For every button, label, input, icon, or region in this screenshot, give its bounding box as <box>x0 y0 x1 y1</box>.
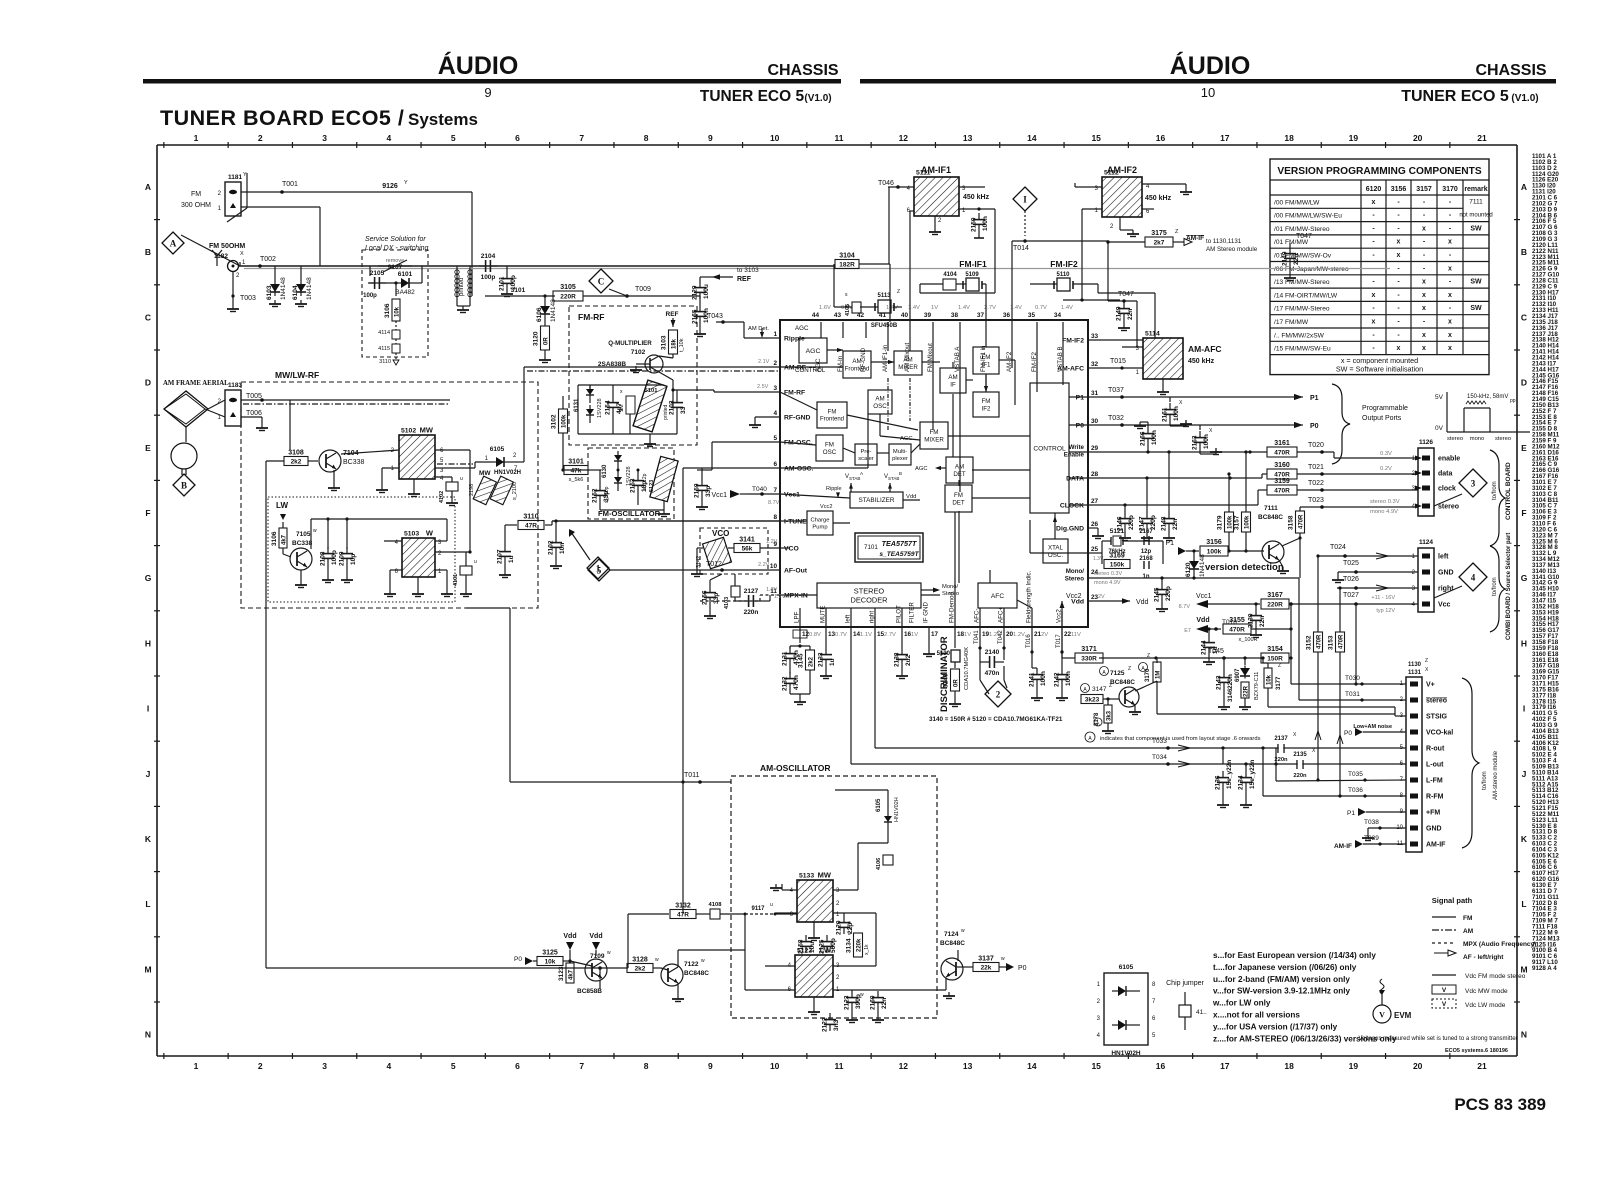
svg-text:v...for SW-version 3.9-12.1MHz: v...for SW-version 3.9-12.1MHz only <box>1213 987 1351 996</box>
IC internal block Pre-scaler <box>855 444 877 465</box>
svg-text:Dig.GND: Dig.GND <box>1056 526 1084 533</box>
capacitor 2130 <box>1248 609 1267 628</box>
svg-text:2131: 2131 <box>782 651 789 666</box>
svg-text:4: 4 <box>1471 573 1476 583</box>
svg-text:Z: Z <box>897 289 900 295</box>
svg-text:W: W <box>426 529 434 538</box>
svg-text:3157: 3157 <box>1234 515 1241 530</box>
diode 6103 <box>274 266 276 280</box>
header rule right <box>860 79 1556 84</box>
transformer 5111 <box>914 170 959 217</box>
wire T023 stereo to connector <box>1300 497 1418 515</box>
svg-text:15: 15 <box>1091 1061 1101 1071</box>
ground <box>341 576 353 583</box>
svg-text:470n: 470n <box>985 670 1000 677</box>
svg-text:30: 30 <box>1091 418 1099 425</box>
svg-text:Vdd: Vdd <box>589 933 602 940</box>
svg-text:C: C <box>1521 312 1527 322</box>
svg-text:Vcc: Vcc <box>1438 602 1451 609</box>
diode 6106 1N4148 <box>544 296 546 302</box>
svg-text:7: 7 <box>579 1061 584 1071</box>
ground <box>846 1016 858 1023</box>
wire T006 gnd <box>241 417 268 431</box>
diode 6104 <box>292 277 313 300</box>
svg-text:FM-In: FM-In <box>837 355 844 372</box>
ground <box>1102 727 1114 734</box>
svg-text:HN1V02H: HN1V02H <box>1111 1050 1141 1057</box>
svg-text:3: 3 <box>1471 479 1476 489</box>
svg-text:17: 17 <box>931 631 939 638</box>
svg-text:1: 1 <box>194 1061 199 1071</box>
REF arrow FM-RF <box>666 311 679 327</box>
ground <box>295 300 307 307</box>
svg-text:3140: 3140 <box>943 673 950 688</box>
svg-text:w: w <box>860 992 864 998</box>
svg-text:MW: MW <box>479 470 491 477</box>
svg-text:1: 1 <box>596 564 601 574</box>
wire Vcc1 to V+ vertical <box>1290 604 1292 684</box>
svg-text:100k: 100k <box>1207 549 1222 556</box>
svg-text:3120: 3120 <box>533 331 540 346</box>
transistor 7125 group <box>1100 666 1136 686</box>
wire RF-GND pin4 <box>749 417 780 428</box>
svg-text:IF: IF <box>950 381 956 388</box>
svg-text:16: 16 <box>1156 133 1166 143</box>
svg-text:AFC: AFC <box>991 593 1004 600</box>
svg-text:BZX79-C11: BZX79-C11 <box>1254 672 1260 700</box>
svg-text:/00 FM/MW/LW: /00 FM/MW/LW <box>1274 199 1320 206</box>
svg-text:3169: 3169 <box>1109 553 1125 560</box>
resistor 3167 <box>1261 592 1289 609</box>
svg-text:Vcc1: Vcc1 <box>1196 593 1212 600</box>
svg-text:2104: 2104 <box>481 253 496 260</box>
svg-text:y....for USA version (/17/37): y....for USA version (/17/37) only <box>1213 1022 1338 1031</box>
capacitors 2146 2147 2148 <box>1125 452 1169 512</box>
svg-text:4104: 4104 <box>943 272 957 278</box>
svg-text:2132: 2132 <box>782 676 789 691</box>
svg-text:3110: 3110 <box>379 359 391 365</box>
resistor 3154 <box>1261 646 1289 663</box>
svg-text:15e_y22n: 15e_y22n <box>1249 760 1256 789</box>
ground <box>1277 567 1289 574</box>
IC right pin labels <box>1056 333 1099 606</box>
svg-text:2168: 2168 <box>1139 556 1153 562</box>
svg-text:BC848C: BC848C <box>684 970 709 977</box>
capacitor 2105 100p <box>363 266 386 299</box>
svg-text:data: data <box>1438 471 1453 478</box>
svg-text:47R: 47R <box>525 523 537 530</box>
dashed box AM-OSCILLATOR <box>731 763 937 1018</box>
svg-text:7125: 7125 <box>1110 670 1125 677</box>
svg-text:mono 4.9V: mono 4.9V <box>1370 509 1398 515</box>
svg-text:2: 2 <box>258 1061 263 1071</box>
svg-text:220n: 220n <box>1227 674 1234 689</box>
capacitor 2134 <box>1238 760 1257 790</box>
svg-text:w...for LW only: w...for LW only <box>1212 999 1271 1008</box>
svg-text:1.2V: 1.2V <box>774 594 786 600</box>
svg-text:5121: 5121 <box>1110 528 1125 535</box>
svg-text:x: x <box>1448 345 1452 352</box>
wire vertical 470 <box>469 450 471 552</box>
svg-text:2101: 2101 <box>499 276 506 291</box>
ground <box>770 884 782 891</box>
svg-text:10: 10 <box>1201 85 1215 100</box>
svg-text:EVM: EVM <box>1394 1011 1412 1020</box>
ground <box>896 672 908 679</box>
svg-text:7124: 7124 <box>944 931 959 938</box>
capacitor 2146 <box>1117 512 1136 531</box>
svg-text:5112: 5112 <box>1104 170 1119 177</box>
svg-text:100n: 100n <box>1151 430 1158 445</box>
capacitor 2108 <box>320 547 339 566</box>
ground <box>1210 448 1222 455</box>
svg-text:BC338: BC338 <box>292 540 313 547</box>
svg-text:4114: 4114 <box>378 330 390 336</box>
IC internal block FM MIXER <box>920 422 948 449</box>
svg-text:MIXER: MIXER <box>924 436 944 443</box>
svg-text:2107: 2107 <box>497 549 504 564</box>
svg-text:1V: 1V <box>931 305 938 311</box>
filter 5120 CDA10.7MG40K <box>937 627 970 690</box>
svg-text:w: w <box>607 950 611 956</box>
svg-text:Programmable: Programmable <box>1362 405 1408 412</box>
svg-text:3: 3 <box>322 1061 327 1071</box>
svg-text:Vcc1: Vcc1 <box>711 492 727 499</box>
ground <box>694 330 706 337</box>
svg-text:Write: Write <box>1069 444 1085 451</box>
svg-text:450 kHz: 450 kHz <box>1188 358 1215 365</box>
resistor 3125 10k <box>514 956 537 965</box>
ground <box>929 228 941 235</box>
capacitor 2125 <box>819 935 838 954</box>
node 5 <box>588 559 610 581</box>
svg-text:6120: 6120 <box>1185 562 1192 577</box>
svg-text:FM: FM <box>982 398 991 405</box>
wire VCO-kal P0 <box>1344 724 1406 737</box>
capacitor 2154 <box>605 396 624 415</box>
svg-text:2137: 2137 <box>1274 736 1288 742</box>
svg-text:Z: Z <box>1109 683 1112 689</box>
svg-text:typ 12V: typ 12V <box>1376 608 1395 614</box>
resistor 3125 <box>537 950 563 966</box>
svg-text:Chip jumper: Chip jumper <box>1166 980 1204 987</box>
wire ripple pin1 <box>744 322 780 338</box>
svg-text:3132: 3132 <box>675 903 691 910</box>
capacitor 2104 <box>479 253 497 281</box>
node A <box>162 232 184 254</box>
svg-text:22n: 22n <box>1172 519 1179 530</box>
svg-text:J: J <box>146 769 151 779</box>
capacitor 2135 220n series <box>1293 748 1316 779</box>
svg-text:13: 13 <box>963 133 973 143</box>
svg-text:printed: printed <box>459 278 465 296</box>
node 4 <box>1459 563 1487 591</box>
svg-text:P1: P1 <box>1076 395 1085 402</box>
svg-text:left: left <box>1438 554 1449 561</box>
svg-text:2159: 2159 <box>694 483 701 498</box>
component 6105 HN1V02H block <box>1097 964 1156 1057</box>
wire DigGND pin26 <box>1088 528 1104 539</box>
svg-text:AGC: AGC <box>900 436 913 442</box>
svg-text:T034: T034 <box>1152 754 1167 761</box>
svg-text:220p: 220p <box>1150 515 1157 530</box>
resistor <box>1081 695 1103 704</box>
ground <box>295 581 307 588</box>
svg-text:T035: T035 <box>1348 771 1363 778</box>
svg-text:OSC: OSC <box>823 449 837 456</box>
svg-text:HN1V02H: HN1V02H <box>894 797 900 822</box>
IC internal block AM MIXER <box>894 351 922 375</box>
resistor 4101 <box>453 552 477 597</box>
svg-text:FM-IF1 in: FM-IF1 in <box>980 345 987 372</box>
wire T005 bus <box>241 398 450 402</box>
svg-text:Z: Z <box>1278 663 1281 669</box>
resistor 3101 <box>564 459 588 475</box>
ground <box>446 499 458 506</box>
capacitor 2131 470n <box>790 627 810 650</box>
svg-text:100n: 100n <box>982 216 989 231</box>
svg-text:I: I <box>1023 195 1027 205</box>
svg-text:470n: 470n <box>793 675 800 690</box>
svg-text:REF: REF <box>737 276 752 283</box>
svg-text:MW: MW <box>818 871 832 880</box>
svg-text:470R: 470R <box>1299 514 1305 529</box>
diode 6120 1N4148 <box>1192 549 1195 557</box>
svg-text:SW = Software initialisation: SW = Software initialisation <box>1336 365 1423 374</box>
FM signal bus horizontal <box>238 256 1390 269</box>
svg-text:stereo 0.3V: stereo 0.3V <box>1370 499 1400 505</box>
ground <box>328 484 340 491</box>
svg-text:T022: T022 <box>1308 480 1324 487</box>
svg-text:22k: 22k <box>981 965 992 972</box>
svg-text:L: L <box>145 899 150 909</box>
resistor 3179 <box>1217 512 1234 532</box>
capacitor 2122 <box>822 1013 841 1032</box>
ground <box>704 612 716 619</box>
capacitor 2101 <box>499 272 518 291</box>
ground <box>1362 834 1374 841</box>
ground <box>412 590 424 597</box>
resistor 3103 <box>661 330 678 354</box>
svg-text:2160: 2160 <box>870 995 877 1010</box>
resistor 3134 <box>846 933 863 957</box>
svg-text:2154: 2154 <box>605 400 612 415</box>
svg-text:36: 36 <box>1003 312 1011 319</box>
svg-text:5101: 5101 <box>645 388 659 394</box>
svg-text:Local DX - switching: Local DX - switching <box>365 245 429 252</box>
svg-text:220k: 220k <box>857 938 863 952</box>
node 3 <box>1459 469 1487 497</box>
svg-text:VCO: VCO <box>784 546 799 553</box>
svg-text:x: x <box>1372 292 1376 299</box>
capacitor 2161 <box>1162 403 1181 422</box>
svg-text:/00 FM/MW/LW/SW-Eu: /00 FM/MW/LW/SW-Eu <box>1274 213 1342 220</box>
svg-text:X: X <box>240 251 244 257</box>
resistor 4106 <box>876 855 893 870</box>
resistor 4102 <box>439 476 463 506</box>
filter FM-IF1 5109 <box>920 259 987 291</box>
wire T014 horizontal <box>1012 241 1137 347</box>
svg-text:450 kHz: 450 kHz <box>963 194 990 201</box>
svg-text:37: 37 <box>977 312 985 319</box>
wire Vdd pin23 <box>1088 594 1149 606</box>
svg-text:2144: 2144 <box>1201 640 1208 655</box>
capacitor 2156 <box>702 586 721 605</box>
svg-text:GND: GND <box>1426 826 1442 833</box>
capacitor 2144 1u <box>1207 627 1210 636</box>
svg-text:11: 11 <box>835 133 844 143</box>
svg-text:2108: 2108 <box>320 551 327 566</box>
wire T001 bus <box>241 180 472 296</box>
ground <box>499 571 511 578</box>
svg-text:7122: 7122 <box>684 961 699 968</box>
svg-text:27: 27 <box>1091 498 1099 505</box>
svg-text:2123: 2123 <box>844 995 851 1010</box>
svg-text:right: right <box>1438 586 1454 593</box>
svg-text:3170: 3170 <box>1442 186 1458 193</box>
ground <box>658 510 670 517</box>
svg-text:2127: 2127 <box>744 588 759 595</box>
svg-text:RF-GND: RF-GND <box>860 347 867 372</box>
svg-text:1.6V: 1.6V <box>819 305 831 311</box>
svg-text:7102: 7102 <box>631 349 646 356</box>
capacitor 2136 <box>0 0 1 1</box>
svg-text:Ripple: Ripple <box>826 486 842 492</box>
capacitor 2120 <box>836 916 855 935</box>
programmable output ports brace <box>1332 384 1408 464</box>
svg-text:0.3V: 0.3V <box>1380 451 1392 457</box>
svg-text:38: 38 <box>951 312 959 319</box>
waveform inset stereo mono <box>1435 392 1530 442</box>
svg-text:CONTROL: CONTROL <box>795 367 826 374</box>
dashed box Service Solution for Local DX switching <box>362 236 429 357</box>
svg-text:35: 35 <box>1028 312 1036 319</box>
svg-text:2167: 2167 <box>1139 529 1153 535</box>
svg-text:IF2: IF2 <box>982 405 991 412</box>
ground <box>550 562 562 569</box>
svg-text:T012: T012 <box>706 561 722 568</box>
svg-text:5102: 5102 <box>401 428 416 435</box>
node C <box>589 269 613 293</box>
wire FM-RF pin3 <box>697 384 780 392</box>
svg-text:0V: 0V <box>1435 425 1444 432</box>
svg-text:B: B <box>899 471 902 476</box>
svg-text:2163: 2163 <box>1192 435 1199 450</box>
svg-text:to/from: to/from <box>1482 771 1488 790</box>
grid row letters <box>144 182 1527 1040</box>
svg-text:AGC: AGC <box>915 466 928 472</box>
capacitor 2138 2u2 <box>901 627 903 648</box>
svg-text:T006: T006 <box>246 410 262 417</box>
svg-text:/01 FM/MW: /01 FM/MW <box>1274 239 1309 246</box>
capacitor 2103 <box>669 396 688 415</box>
svg-text:2.5V: 2.5V <box>757 384 769 390</box>
resistor 3108 <box>284 450 308 466</box>
svg-text:CDA10.7MG40K: CDA10.7MG40K <box>964 647 970 690</box>
svg-text:Mono/: Mono/ <box>942 584 959 590</box>
svg-text:1.2V: 1.2V <box>1013 632 1025 638</box>
ground <box>872 1016 884 1023</box>
svg-text:100n: 100n <box>1065 671 1072 686</box>
filter 5113 SFU450B <box>834 264 902 329</box>
svg-text:2.1V: 2.1V <box>758 359 770 365</box>
svg-text:I: I <box>147 704 149 714</box>
svg-text:STAB: STAB <box>849 476 860 481</box>
capacitor 2153 <box>630 474 649 493</box>
capacitor 2127 <box>742 588 760 616</box>
svg-text:4: 4 <box>387 1061 392 1071</box>
svg-text:6105: 6105 <box>490 446 505 453</box>
svg-text:x: x <box>1372 319 1376 326</box>
svg-text:Vdc MW mode: Vdc MW mode <box>1465 988 1508 995</box>
note indicates component <box>1085 732 1261 742</box>
wire clock 3159 row <box>1088 490 1267 507</box>
resistor 4108 <box>696 902 800 990</box>
svg-text:T021: T021 <box>1308 464 1324 471</box>
capacitor 2168 1n <box>1139 556 1153 580</box>
resistor 4103 <box>724 574 740 609</box>
svg-text:5109: 5109 <box>965 272 979 278</box>
svg-text:470R: 470R <box>1317 634 1323 649</box>
capacitor 2145 220p <box>1161 578 1163 583</box>
capacitor 2160 <box>870 991 889 1010</box>
svg-text:version detection: version detection <box>1205 562 1284 573</box>
printed coils <box>455 266 472 313</box>
transformer AM-IF2 5112 <box>1107 165 1137 175</box>
svg-text:150k: 150k <box>1110 562 1125 569</box>
svg-text:1u: 1u <box>508 555 515 563</box>
svg-text:Vcc2: Vcc2 <box>1066 593 1082 600</box>
svg-text:2105: 2105 <box>370 270 385 277</box>
svg-text:x: x <box>1372 199 1376 206</box>
svg-text:Output Ports: Output Ports <box>1362 415 1402 422</box>
svg-text:T043: T043 <box>707 313 723 320</box>
svg-text:2: 2 <box>773 360 777 367</box>
svg-text:P1: P1 <box>1347 810 1355 817</box>
svg-text:12: 12 <box>899 1061 909 1071</box>
svg-text:3171: 3171 <box>1081 646 1097 653</box>
svg-text:FM: FM <box>828 410 837 416</box>
capacitor 2152 <box>592 484 611 503</box>
svg-text:TUNER ECO 5: TUNER ECO 5 <box>1401 88 1509 105</box>
wire IF GND pin17 <box>923 627 935 657</box>
svg-text:J: J <box>1522 769 1527 779</box>
wire P1 version detect <box>1165 540 1199 555</box>
svg-text:FM: FM <box>930 429 939 436</box>
diode <box>1240 666 1250 679</box>
svg-text:10: 10 <box>770 133 780 143</box>
svg-text:DECODER: DECODER <box>851 596 888 605</box>
wire V+ T030 <box>1291 675 1406 686</box>
frame aerial to B wire <box>185 427 187 442</box>
svg-text:1124: 1124 <box>1419 539 1433 546</box>
IC internal block AM IF <box>940 368 966 393</box>
svg-text:10: 10 <box>770 563 778 570</box>
svg-text:2120: 2120 <box>836 920 843 935</box>
MW switch area 6105 <box>490 446 505 453</box>
wire vertical 682 <box>681 780 684 914</box>
svg-text:0R: 0R <box>954 679 960 687</box>
svg-text:3152: 3152 <box>1306 635 1313 650</box>
svg-text:10p: 10p <box>350 554 357 565</box>
svg-text:6105: 6105 <box>876 798 882 812</box>
svg-text:G: G <box>1521 573 1528 583</box>
resistor 3140 <box>943 669 960 691</box>
capacitor 2105 <box>368 270 386 289</box>
svg-text:Mono/: Mono/ <box>1066 568 1084 575</box>
jumper 4114 <box>378 321 400 339</box>
resistor 3170 1M <box>1139 653 1152 682</box>
